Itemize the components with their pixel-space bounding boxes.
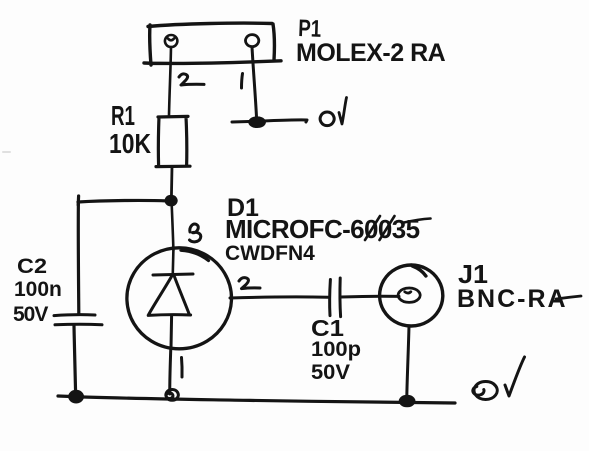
wire C1 to J1 [341, 295, 399, 299]
pin number 1 [242, 74, 243, 89]
svg-text:MICROFC-60035: MICROFC-60035 [225, 214, 420, 244]
svg-text:BNC-RA: BNC-RA [457, 285, 568, 313]
D1 diode triangle [148, 275, 190, 316]
capacitor C1 left plate [328, 280, 332, 316]
pin label 2 D1 [239, 278, 260, 289]
D1 internal stub top [172, 250, 175, 273]
pin label 1 [180, 358, 184, 378]
wire pin 2 to R1 [169, 47, 171, 115]
svg-text:100n: 100n [14, 278, 62, 301]
BNC-RA tail stroke [556, 296, 581, 299]
wire C2 to rail [74, 326, 76, 393]
pin label 3 [190, 224, 201, 242]
junction node below R1 [166, 196, 177, 205]
pin number 2 [179, 74, 204, 85]
label 0V bottom [473, 382, 497, 400]
svg-text:CWDFN4: CWDFN4 [225, 242, 315, 265]
ground rail 0V [58, 396, 455, 403]
wire C2 branch vertical [77, 202, 81, 314]
junction dot C2 rail [70, 391, 83, 402]
photodiode D1 circle [127, 248, 232, 349]
J1 center pin [398, 288, 420, 302]
wire R1 to node [170, 167, 173, 198]
wire D1 pin 1 to rail [170, 348, 171, 394]
junction dot J1 rail [400, 396, 414, 406]
wire pin 1 to 0V junction [252, 47, 257, 119]
P1 pin 2 circle [165, 35, 177, 47]
capacitor C2 bottom plate [55, 323, 102, 327]
connector J1 outer circle [380, 265, 443, 326]
connector P1 body [144, 23, 281, 65]
P1 pin 1 circle [246, 35, 259, 47]
D1 internal stub bottom [170, 316, 174, 348]
svg-text:MOLEX-2 RA: MOLEX-2 RA [296, 39, 446, 67]
svg-text:50V: 50V [311, 361, 350, 384]
slashed zeros [365, 216, 395, 240]
svg-text:R1: R1 [111, 100, 135, 131]
svg-text:100p: 100p [311, 338, 361, 361]
wire J1 to rail [407, 326, 409, 397]
junction dot pin1 0V [249, 118, 264, 127]
svg-text:50V: 50V [13, 303, 48, 326]
capacitor C2 top plate [54, 313, 95, 317]
svg-text:C2: C2 [17, 255, 47, 278]
capacitor C1 right plate [338, 278, 342, 317]
resistor R1 [156, 116, 190, 166]
label 5 swash [404, 219, 431, 223]
junction dot D1 rail [166, 390, 178, 401]
wire 0V stub top right [261, 120, 307, 122]
label 0V top [320, 112, 334, 126]
stray smudge left edge [3, 151, 10, 153]
wire D1 pin 2 to C1 [230, 297, 328, 298]
D1 diode cathode bar [153, 274, 193, 275]
svg-text:10K: 10K [109, 128, 151, 159]
wire 0V stub top left [232, 120, 253, 124]
wire node to C2 branch horizontal [78, 196, 168, 205]
wire node to D1 pin 3 [172, 202, 174, 250]
